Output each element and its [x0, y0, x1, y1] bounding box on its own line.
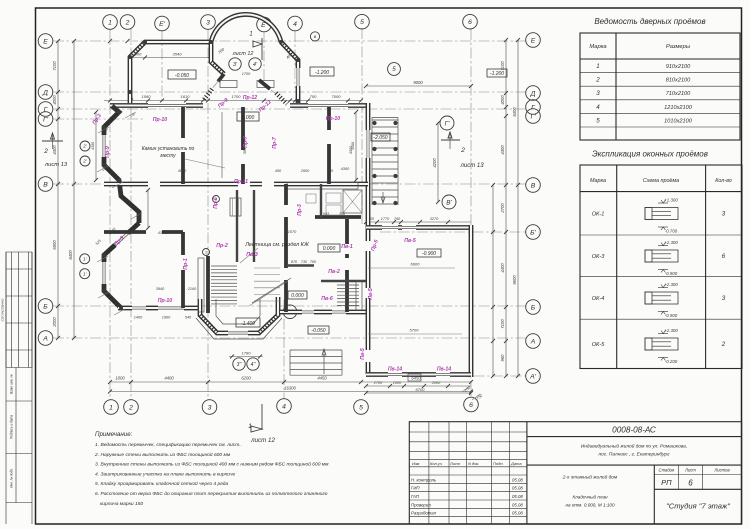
svg-text:Экспликация оконных проёмов: Экспликация оконных проёмов	[592, 150, 708, 159]
svg-text:ОК-5: ОК-5	[592, 342, 606, 348]
top wall left section	[110, 103, 203, 108]
fireplace	[230, 198, 241, 216]
svg-text:6: 6	[468, 19, 472, 26]
svg-text:Пр-9: Пр-9	[105, 146, 111, 158]
hatched wall segment row V	[287, 183, 358, 189]
svg-text:05.08: 05.08	[512, 486, 523, 491]
svg-text:СОГЛАСОВАНО: СОГЛАСОВАНО	[1, 298, 5, 321]
svg-text:лист 12: лист 12	[250, 437, 275, 444]
svg-text:910х2100: 910х2100	[666, 64, 691, 70]
svg-text:1400: 1400	[134, 316, 143, 320]
svg-text:1': 1'	[83, 256, 87, 261]
svg-text:4000: 4000	[52, 95, 57, 105]
svg-text:4345: 4345	[158, 231, 167, 235]
bathroom shaft	[343, 190, 362, 213]
svg-text:6: 6	[469, 402, 473, 409]
interior wall V x286	[284, 184, 288, 312]
svg-text:1: 1	[249, 32, 252, 38]
svg-text:Марка: Марка	[589, 44, 607, 50]
svg-text:4300: 4300	[52, 145, 57, 155]
svg-text:1: 1	[109, 404, 113, 411]
svg-text:2: 2	[125, 19, 130, 26]
svg-text:1000: 1000	[115, 376, 125, 381]
left binding strip cells	[5, 252, 7, 368]
svg-text:6900: 6900	[52, 240, 57, 250]
svg-text:3940: 3940	[156, 287, 165, 291]
svg-text:Подп.: Подп.	[493, 461, 504, 466]
section marker bottom	[261, 404, 263, 430]
svg-text:7000: 7000	[332, 94, 342, 99]
svg-text:5: 5	[596, 117, 600, 124]
section marker top	[261, 38, 263, 60]
svg-text:0.000: 0.000	[323, 246, 336, 252]
svg-text:Пв-5: Пв-5	[360, 348, 366, 360]
svg-text:лист 13: лист 13	[44, 162, 68, 168]
svg-text:2700: 2700	[373, 381, 383, 385]
interior wall V x321	[320, 184, 322, 219]
svg-text:2-х этажный жилой дом: 2-х этажный жилой дом	[562, 474, 618, 481]
detail circles 3' 4'	[229, 58, 241, 70]
svg-text:Кол.уч: Кол.уч	[430, 461, 442, 466]
svg-text:7100: 7100	[52, 61, 57, 71]
svg-text:4: 4	[596, 104, 600, 111]
svg-text:5. Кладку проармировать кладоч: 5. Кладку проармировать кладочной сеткой…	[95, 480, 228, 487]
svg-text:1700: 1700	[242, 72, 251, 76]
svg-text:лист 13: лист 13	[459, 163, 484, 169]
stairwell side walls	[236, 190, 238, 262]
svg-text:2600: 2600	[300, 169, 310, 173]
svg-text:ГИП: ГИП	[411, 486, 420, 491]
svg-text:1: 1	[205, 250, 207, 254]
svg-text:750: 750	[310, 94, 317, 99]
svg-text:Пр-3: Пр-3	[297, 204, 303, 216]
svg-text:1': 1'	[83, 271, 87, 276]
svg-text:5: 5	[359, 404, 363, 411]
svg-text:РП: РП	[661, 478, 672, 487]
svg-text:4000: 4000	[500, 95, 505, 105]
svg-text:Н. контроль: Н. контроль	[411, 478, 437, 483]
svg-text:Подпись и дата: Подпись и дата	[10, 415, 14, 439]
svg-text:-0.900: -0.900	[665, 271, 678, 276]
grid lines vertical	[109, 29, 111, 400]
svg-text:Г': Г'	[43, 116, 49, 123]
stair landing U outline	[216, 299, 260, 324]
svg-text:5700: 5700	[410, 328, 420, 333]
svg-text:0.000: 0.000	[242, 115, 255, 121]
svg-text:Лестница см. раздел КЖ: Лестница см. раздел КЖ	[244, 242, 310, 248]
svg-text:Пв-14: Пв-14	[388, 367, 402, 373]
svg-text:05.08: 05.08	[512, 478, 523, 483]
corridor wall H y265	[286, 264, 314, 266]
svg-text:Пр-11: Пр-11	[234, 179, 248, 185]
svg-text:710х2100: 710х2100	[666, 91, 691, 97]
svg-text:643: 643	[323, 212, 330, 216]
interior wall V1	[181, 107, 185, 184]
svg-text:05.08: 05.08	[512, 494, 523, 499]
svg-text:-0.050: -0.050	[175, 73, 189, 79]
svg-text:6: 6	[688, 478, 693, 487]
svg-text:-0.200: -0.200	[665, 359, 678, 364]
svg-text:1070: 1070	[288, 230, 297, 234]
svg-text:Пв-14: Пв-14	[437, 367, 451, 373]
bay top dim	[131, 57, 211, 59]
right dim line inner	[505, 40, 507, 376]
hatched wall x359	[356, 281, 362, 310]
axis circles bottom	[104, 400, 119, 415]
svg-text:Пв-5: Пв-5	[404, 238, 416, 244]
svg-text:7100: 7100	[500, 319, 505, 329]
svg-text:1: 1	[108, 19, 112, 26]
garage bottom wall	[366, 372, 471, 377]
svg-text:3. Внутренние стены выполнить: 3. Внутренние стены выполнить из ФБС тол…	[95, 461, 329, 468]
svg-text:3270: 3270	[430, 217, 439, 221]
top wall right section	[290, 103, 368, 108]
main right wall	[366, 103, 371, 375]
svg-text:-1.400: -1.400	[241, 321, 255, 327]
svg-text:6700: 6700	[416, 387, 426, 392]
svg-text:Ведомость дверных проёмов: Ведомость дверных проёмов	[594, 17, 705, 26]
svg-text:2: 2	[43, 148, 48, 155]
svg-text:Пв-5: Пв-5	[368, 288, 374, 300]
svg-text:"Студия "7 этаж": "Студия "7 этаж"	[666, 502, 730, 511]
svg-text:1210х2100: 1210х2100	[664, 105, 693, 111]
svg-text:870: 870	[291, 260, 298, 264]
svg-text:4500: 4500	[351, 142, 355, 150]
porch arc	[211, 14, 281, 42]
interior wall V3	[327, 107, 331, 184]
svg-text:1: 1	[248, 423, 251, 430]
row E ticks	[108, 39, 112, 43]
svg-text:ОК-4: ОК-4	[592, 296, 605, 302]
terrace steps bottom right	[290, 349, 342, 351]
svg-text:Б: Б	[531, 304, 536, 311]
svg-text:Пв-1: Пв-1	[341, 244, 353, 250]
svg-text:Размеры: Размеры	[666, 44, 691, 50]
svg-text:Индивидуальный жилой дом по ул: Индивидуальный жилой дом по ул. Ромашков…	[581, 443, 687, 450]
svg-text:ОК-1: ОК-1	[592, 212, 605, 218]
right inner dim 4200	[437, 123, 439, 202]
extra interior dim lines	[95, 112, 97, 180]
svg-text:-0.050: -0.050	[311, 328, 325, 334]
svg-text:В: В	[43, 181, 48, 188]
svg-text:Примечание:: Примечание:	[95, 431, 133, 438]
ne outdoor stair	[372, 117, 398, 119]
svg-text:Пр-10: Пр-10	[153, 117, 168, 123]
svg-text:Листов: Листов	[713, 468, 730, 473]
svg-text:2: 2	[128, 404, 133, 411]
svg-text:4060: 4060	[178, 169, 187, 173]
svg-text:Д: Д	[42, 89, 48, 96]
svg-text:А': А'	[529, 373, 537, 380]
outer wall: top-left bay	[130, 42, 211, 103]
svg-text:-1.200: -1.200	[490, 71, 504, 77]
svg-text:758: 758	[339, 212, 346, 216]
svg-text:1770: 1770	[381, 217, 390, 221]
svg-text:Проверил: Проверил	[411, 502, 431, 507]
svg-text:Пв-6: Пв-6	[321, 296, 333, 302]
bay right stub	[211, 42, 224, 74]
svg-text:Пр-6: Пр-6	[213, 197, 219, 209]
svg-text:Камин установить по: Камин установить по	[142, 146, 195, 152]
svg-text:1: 1	[596, 63, 599, 70]
svg-text:Пр-10: Пр-10	[158, 298, 173, 304]
svg-text:Е: Е	[43, 38, 48, 45]
detail circle v	[310, 32, 319, 41]
svg-text:Б: Б	[43, 303, 48, 310]
left dim line outer	[73, 41, 75, 338]
svg-text:В': В'	[446, 199, 452, 206]
svg-text:3: 3	[722, 295, 726, 302]
svg-text:2000: 2000	[52, 317, 57, 328]
svg-text:4400: 4400	[500, 263, 505, 273]
bottom dim chain	[110, 381, 471, 383]
svg-text:+2.300: +2.300	[664, 328, 678, 333]
chamfer leader ticks	[125, 112, 136, 118]
svg-text:3: 3	[208, 404, 212, 411]
svg-text:пос. Палникс , г. Екатеринбург: пос. Палникс , г. Екатеринбург	[599, 452, 671, 458]
svg-text:1000: 1000	[393, 381, 402, 385]
svg-text:Пр-2: Пр-2	[216, 243, 228, 249]
left dim line inner	[57, 41, 59, 338]
svg-text:700: 700	[310, 260, 317, 264]
svg-text:1010х2100: 1010х2100	[664, 118, 693, 124]
elevation boxes	[168, 70, 196, 79]
left strip lower boxes	[6, 367, 32, 369]
svg-text:3540: 3540	[173, 52, 183, 57]
interior wall V4	[181, 232, 185, 308]
svg-text:ГАП: ГАП	[411, 494, 420, 499]
svg-text:Е: Е	[531, 37, 536, 44]
porch wall stubs	[220, 81, 237, 88]
svg-text:4: 4	[293, 21, 297, 28]
detail circle 5	[388, 63, 401, 76]
svg-text:4200: 4200	[432, 158, 437, 168]
svg-text:9000: 9000	[413, 80, 423, 85]
svg-text:2': 2'	[82, 159, 87, 164]
svg-text:6. Расстояние от верха ФБС до: 6. Расстояние от верха ФБС до опирания п…	[95, 491, 328, 497]
svg-text:месту: месту	[160, 153, 176, 159]
svg-text:Изм: Изм	[412, 461, 420, 466]
grid lines horizontal	[53, 40, 526, 42]
svg-text:6600: 6600	[411, 262, 421, 267]
svg-text:Взам. инв. №: Взам. инв. №	[10, 374, 14, 394]
svg-text:4: 4	[282, 403, 286, 410]
inner axis circles	[440, 116, 454, 130]
porch diag wall left	[218, 74, 224, 82]
svg-text:650: 650	[327, 169, 334, 173]
svg-text:-1.200: -1.200	[315, 70, 329, 76]
tiny detail circles	[213, 196, 220, 203]
svg-text:Пр-7: Пр-7	[243, 135, 249, 148]
left outer profile upper octagon bay	[104, 106, 139, 223]
svg-text:1. Ведомость перемычек, специф: 1. Ведомость перемычек, спецификацию пер…	[95, 442, 242, 448]
svg-text:4360: 4360	[341, 167, 350, 171]
bottom bay outer step line	[196, 318, 282, 339]
svg-text:4. Заштрихованные участки на п: 4. Заштрихованные участки на плане выпол…	[95, 471, 236, 477]
interior wall V2	[241, 107, 245, 184]
small room wall H y281	[321, 280, 366, 282]
svg-text:540: 540	[185, 316, 192, 320]
stairwell left wall	[206, 256, 210, 313]
axis circles right	[526, 33, 541, 48]
svg-text:4300: 4300	[91, 142, 95, 150]
garage interior lines	[368, 267, 455, 269]
stair cut line	[252, 278, 291, 303]
title block	[409, 422, 741, 524]
svg-text:2700: 2700	[500, 203, 505, 214]
bottom bay	[200, 297, 278, 333]
interior wall left rooms H y232	[104, 230, 183, 234]
svg-text:Г': Г'	[445, 120, 450, 127]
svg-text:А: А	[530, 338, 536, 345]
top dim line	[104, 100, 361, 102]
svg-text:Е': Е'	[159, 21, 166, 28]
interior wall row V	[104, 182, 368, 187]
svg-text:Разработал: Разработал	[411, 511, 437, 516]
svg-text:Дата: Дата	[510, 461, 522, 466]
svg-text:16300: 16300	[284, 386, 296, 391]
svg-text:1960: 1960	[162, 316, 171, 320]
svg-text:+2.300: +2.300	[664, 240, 678, 245]
svg-text:1780: 1780	[242, 351, 252, 356]
svg-text:Д: Д	[530, 90, 536, 97]
svg-text:Пв-2: Пв-2	[328, 269, 340, 275]
stair treads main	[211, 265, 237, 267]
svg-text:Лист: Лист	[684, 468, 696, 473]
svg-text:450: 450	[275, 169, 282, 173]
svg-text:760: 760	[394, 217, 401, 221]
garage top wall	[366, 225, 471, 230]
svg-text:1610: 1610	[181, 94, 191, 99]
svg-text:Г': Г'	[531, 113, 537, 120]
top right dim 9000	[366, 85, 471, 87]
svg-text:1700: 1700	[232, 94, 242, 99]
svg-text:6: 6	[722, 253, 726, 260]
svg-text:960: 960	[500, 354, 505, 362]
svg-text:Кладочный план: Кладочный план	[572, 494, 608, 500]
svg-text:Лист: Лист	[449, 461, 461, 466]
bottom wall mid-right section	[280, 310, 370, 315]
fixtures	[326, 193, 341, 203]
window mark circles left	[80, 141, 90, 151]
garage right wall	[469, 225, 474, 377]
svg-text:0008-08-АС: 0008-08-АС	[612, 426, 656, 435]
svg-text:05.08: 05.08	[512, 511, 523, 516]
svg-text:3: 3	[722, 211, 726, 218]
section marker left	[42, 140, 63, 142]
porch diag wall right	[259, 80, 270, 89]
svg-text:+2.300: +2.300	[664, 282, 678, 287]
svg-text:Пр-1: Пр-1	[183, 258, 189, 270]
svg-text:2. Наружные стены выполнить из: 2. Наружные стены выполнить из ФБС толщи…	[94, 451, 231, 458]
interior wall V x347	[345, 219, 349, 312]
wall corner dots	[143, 40, 147, 44]
right dim line garage rows	[492, 185, 494, 376]
svg-text:Пр-7: Пр-7	[272, 136, 278, 149]
section marker right	[441, 139, 460, 141]
svg-text:2: 2	[460, 147, 465, 154]
svg-text:Пв-3: Пв-3	[246, 252, 258, 258]
svg-text:4300: 4300	[500, 145, 505, 155]
svg-text:Марка: Марка	[590, 178, 606, 184]
svg-text:Инв. № подл.: Инв. № подл.	[10, 468, 14, 488]
svg-text:кирпича марки 150: кирпича марки 150	[100, 501, 143, 507]
svg-text:4400: 4400	[164, 376, 174, 381]
svg-text:6200: 6200	[241, 376, 251, 381]
porch right chamfer wall	[281, 42, 298, 103]
svg-text:лист 12: лист 12	[232, 51, 254, 57]
svg-text:В: В	[531, 182, 536, 189]
svg-text:5: 5	[392, 66, 396, 73]
bay bottom dims	[229, 356, 263, 358]
svg-text:8400: 8400	[512, 107, 517, 117]
svg-text:0.000: 0.000	[291, 293, 304, 299]
svg-text:Пр-10: Пр-10	[326, 116, 341, 122]
svg-text:на отм. 0.000, М 1:100: на отм. 0.000, М 1:100	[565, 503, 614, 508]
svg-text:А: А	[42, 335, 48, 342]
svg-text:2: 2	[721, 341, 726, 348]
svg-text:-0.900: -0.900	[422, 251, 436, 257]
svg-text:9600: 9600	[512, 275, 517, 285]
svg-text:Кол-во: Кол-во	[715, 178, 732, 184]
svg-text:5: 5	[360, 19, 364, 26]
svg-text:2160: 2160	[187, 287, 197, 291]
bottom wall left section	[118, 306, 200, 311]
svg-text:N док.: N док.	[468, 461, 479, 466]
svg-text:8400: 8400	[68, 250, 73, 260]
svg-text:+1.300: +1.300	[664, 198, 678, 203]
right dim line outer	[517, 40, 519, 376]
interior wall H y217	[315, 215, 361, 219]
svg-text:3: 3	[596, 90, 600, 97]
svg-text:Пр-12: Пр-12	[243, 95, 258, 101]
svg-text:2': 2'	[82, 144, 87, 149]
svg-text:3: 3	[206, 19, 210, 26]
svg-text:Схема проёма: Схема проёма	[643, 178, 679, 184]
svg-text:2: 2	[595, 77, 600, 84]
small stair right block	[337, 284, 359, 286]
left outer profile lower chamfer and bay	[104, 223, 139, 308]
svg-text:2000: 2000	[431, 381, 441, 385]
svg-text:-2.050: -2.050	[373, 135, 387, 141]
svg-text:ОК-3: ОК-3	[592, 254, 606, 260]
svg-text:4450: 4450	[317, 376, 327, 381]
axis circles left	[38, 34, 53, 49]
axis circles top	[103, 15, 118, 30]
svg-text:05.08: 05.08	[512, 502, 523, 507]
svg-text:810х2100: 810х2100	[666, 78, 691, 84]
svg-text:-0.700: -0.700	[665, 229, 678, 234]
garage top dims	[366, 221, 471, 223]
svg-text:1560: 1560	[142, 94, 152, 99]
svg-text:730: 730	[301, 260, 308, 264]
svg-text:-0.900: -0.900	[665, 313, 678, 318]
svg-text:Стадия: Стадия	[659, 468, 675, 473]
garage bottom dims	[366, 385, 471, 387]
svg-text:Б': Б'	[530, 229, 536, 236]
